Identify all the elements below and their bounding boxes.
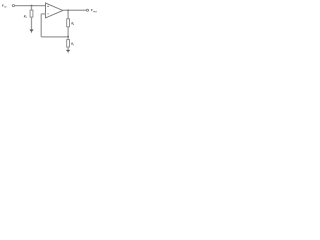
- terminal Vout: [86, 9, 88, 11]
- wire inverting input: [41, 13, 45, 15]
- node B junction dot (output): [67, 9, 69, 11]
- resistor R2: [67, 19, 70, 27]
- wire output: [63, 9, 87, 11]
- wire node A down to R3: [31, 6, 33, 11]
- label R2: [71, 21, 75, 26]
- wire R2 to node C: [67, 27, 69, 37]
- ground (right, arrow style): [66, 50, 70, 52]
- label Vin: [2, 4, 7, 9]
- wire output node down to R2: [67, 10, 69, 18]
- wire feedback horizontal: [41, 36, 68, 38]
- svg-text:1: 1: [73, 43, 74, 46]
- label R1: [71, 42, 74, 47]
- resistor R3: [30, 10, 33, 17]
- label Vout: [91, 8, 97, 13]
- wire node C down to R1: [67, 37, 69, 40]
- wire R1 to ground: [67, 47, 69, 50]
- plus sign (noninverting input): [47, 6, 48, 7]
- wire feedback vertical left: [40, 14, 42, 37]
- minus sign (inverting input): [47, 13, 48, 15]
- op-amp U1: [46, 3, 63, 18]
- wire R3 to ground: [31, 17, 33, 29]
- terminal Vin: [12, 5, 14, 7]
- svg-text:out: out: [93, 10, 97, 13]
- wire Vin to noninverting input: [15, 5, 46, 7]
- label R3: [24, 14, 28, 19]
- node A junction dot: [31, 5, 33, 7]
- resistor R1: [67, 40, 70, 47]
- node C junction dot (feedback): [67, 36, 69, 38]
- ground (left, arrow style): [29, 30, 33, 33]
